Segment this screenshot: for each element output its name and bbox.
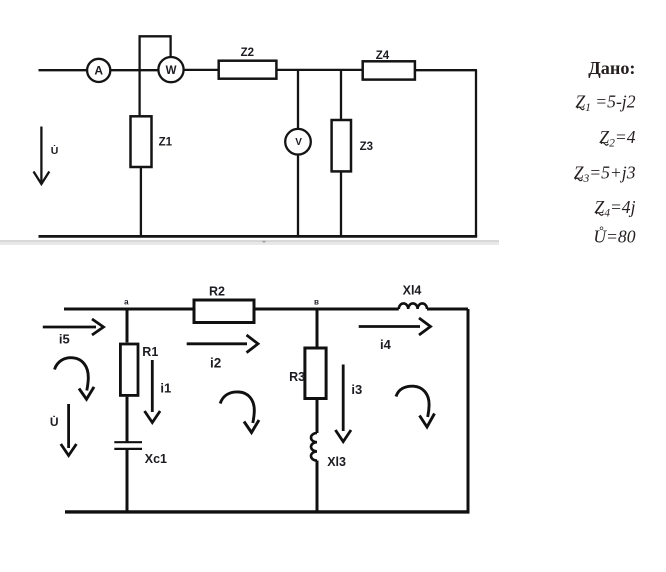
svg-text:Z4=4j: Z4=4j [594, 197, 635, 220]
svg-text:V: V [295, 137, 302, 148]
svg-text:Z3: Z3 [360, 141, 373, 153]
svg-text:Дано:: Дано: [588, 58, 635, 78]
svg-text:U̇: U̇ [50, 414, 59, 429]
svg-text:W: W [166, 65, 177, 77]
svg-text:Z3=5+j3: Z3=5+j3 [574, 162, 636, 185]
svg-text:Z2=4: Z2=4 [599, 127, 635, 150]
svg-text:i1: i1 [160, 380, 171, 395]
svg-text:A: A [94, 64, 103, 78]
svg-text:Xl4: Xl4 [403, 283, 422, 297]
svg-text:Xl3: Xl3 [327, 455, 346, 469]
svg-text:R1: R1 [142, 345, 158, 359]
svg-text:U̇: U̇ [51, 144, 59, 156]
svg-text:Z1: Z1 [159, 137, 173, 149]
svg-text:i2: i2 [210, 356, 221, 371]
svg-text:i3: i3 [351, 382, 362, 397]
svg-text:Ů=80: Ů=80 [593, 227, 635, 247]
svg-text:в: в [314, 298, 319, 307]
svg-text:Z4: Z4 [376, 50, 390, 62]
svg-text:R3: R3 [289, 370, 305, 384]
svg-text:R2: R2 [209, 285, 225, 299]
svg-text:Z1 =5-j2: Z1 =5-j2 [575, 91, 635, 114]
svg-text:i5: i5 [59, 332, 70, 347]
svg-text:i4: i4 [380, 337, 392, 352]
svg-text:Z2: Z2 [241, 47, 254, 59]
svg-text:a: a [124, 298, 129, 307]
svg-text:Xc1: Xc1 [145, 452, 167, 466]
